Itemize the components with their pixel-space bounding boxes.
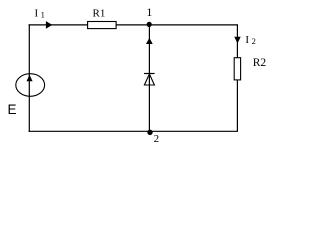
arrow I2 current direction — [234, 37, 240, 44]
wire top — [29, 24, 238, 26]
svg-text:E: E — [8, 102, 17, 117]
svg-text:I: I — [245, 34, 249, 46]
wire left — [28, 24, 30, 131]
node 2 junction dot — [147, 130, 152, 135]
svg-text:R1: R1 — [93, 7, 106, 19]
resistor R2 — [234, 58, 240, 80]
node 1 junction dot — [147, 22, 152, 27]
wire middle branch (node 1 to node 2) — [148, 25, 150, 131]
svg-text:1: 1 — [41, 10, 45, 20]
diode VD1 cathode bar — [144, 73, 155, 75]
svg-text:2: 2 — [154, 133, 160, 145]
diode VD1 triangle — [144, 74, 154, 85]
svg-text:R2: R2 — [253, 57, 267, 69]
wire right — [236, 24, 238, 131]
resistor R1 — [88, 22, 117, 29]
svg-text:1: 1 — [146, 5, 152, 19]
wire bottom — [29, 130, 238, 132]
svg-text:2: 2 — [252, 36, 256, 46]
arrow diode branch current direction — [146, 38, 153, 44]
source arrow (EMF direction) — [27, 75, 33, 82]
arrow I1 current direction — [46, 21, 52, 29]
svg-text:I: I — [35, 8, 39, 20]
source U1 (EMF source E) circle — [16, 74, 45, 97]
